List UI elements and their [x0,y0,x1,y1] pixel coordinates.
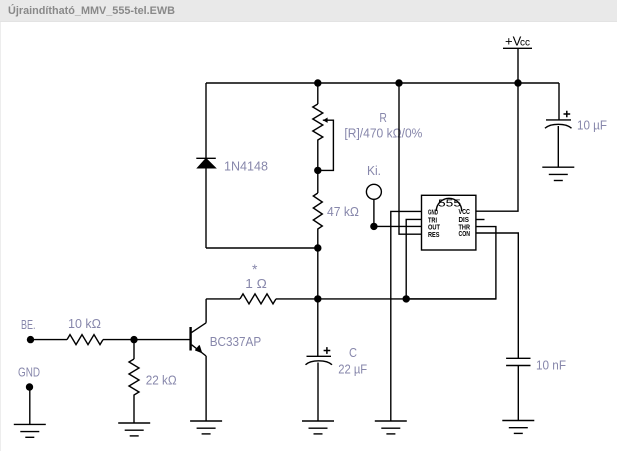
svg-text:cc: cc [520,38,530,49]
node dot OUT [370,223,377,230]
wire CON down to 10nF [476,233,518,358]
ground 10nF [502,421,534,434]
wire OUT pin [374,225,422,227]
label 1 Ohm [245,277,267,291]
wire DIS stub [476,219,485,221]
wire row down to 22uF [317,299,319,356]
svg-text:R: R [379,111,387,125]
ground 22uF [302,421,334,434]
wire TRI pin down to row [406,219,421,299]
resistor 1 ohm zigzag [240,294,276,304]
svg-text:22 kΩ: 22 kΩ [146,374,177,388]
node dot diode/47k junction [314,244,321,251]
ground emitter [190,421,222,434]
label 10 uF [577,119,607,133]
label 22 uF [338,363,367,377]
wire pot to 47k [317,170,319,193]
resistor 10k zigzag [67,335,103,345]
wire BE to 10k [31,339,68,341]
wire diode bottom horizontal [206,247,318,249]
wire 47k junction down to row [317,248,319,299]
wire 22k top [133,340,135,359]
wire collector row to 1 ohm [206,298,240,300]
svg-text:22 µF: 22 µF [338,363,367,377]
probe Ki. circle [366,184,381,199]
pin label GND [428,207,438,216]
resistor 22k zigzag [129,359,139,423]
svg-text:RES: RES [428,230,440,239]
resistor 47k zigzag [313,193,322,248]
wire 10k to base node [103,339,191,341]
label 22 kOhm [146,374,177,388]
label GND [18,366,40,380]
label [R]/470 kOhm/0% [344,126,422,140]
svg-text:BC337AP: BC337AP [210,335,262,349]
title bar [0,0,617,22]
node dot Vcc rail [514,79,521,86]
wire GND terminal down [29,387,31,424]
svg-text:Újraindítható_MMV_555-tel.EWB: Újraindítható_MMV_555-tel.EWB [8,4,175,17]
label 10 nF [536,359,566,373]
capacitor C 22uF electrolytic [306,347,333,421]
wire emitter down [205,356,207,421]
wire left drop to diode [205,83,207,158]
svg-text:BE.: BE. [21,318,36,332]
node dot pot bottom [314,167,321,174]
transistor Q1 BC337AP [191,323,207,356]
capacitor 10uF electrolytic [545,111,572,168]
potentiometer R zigzag [313,104,323,170]
wire GND pin down to ground [391,211,422,421]
node dot base/22k [130,336,137,343]
ground 22k [118,423,150,436]
svg-text:*: * [252,261,258,277]
label BE. [21,318,36,332]
ground 10uF [542,167,574,180]
pin label OUT [428,222,440,231]
node dot rail/pot [314,79,321,86]
node dot row/cap [314,295,321,302]
svg-text:47 kΩ: 47 kΩ [327,205,359,219]
ground 555 GND [375,421,407,434]
wire collector up [205,299,207,323]
label 47 kOhm [327,205,359,219]
wire RES vertical from rail [395,79,421,234]
capacitor 10nF [506,358,530,420]
svg-text:Ki.: Ki. [367,164,381,178]
wire VCC pin from rail [476,83,518,211]
svg-text:10 µF: 10 µF [577,119,607,133]
label 555 [438,198,462,209]
wire rail right branch [558,83,560,120]
svg-text:CON: CON [459,229,471,238]
label 1N4148 [224,160,268,174]
pin label DIS [459,215,470,224]
label Ki. [367,164,381,178]
svg-text:1N4148: 1N4148 [224,160,268,174]
wire row middle [276,298,496,300]
node dot TRI/row [403,295,410,302]
diode D1 1N4148 (cathode up) [196,158,216,248]
wire THR to row [406,227,496,299]
ground BE input [14,424,46,437]
wire top rail [206,82,559,84]
svg-text:1 Ω: 1 Ω [245,277,267,291]
label C [349,346,357,360]
power +Vcc symbol [503,34,532,84]
label asterisk [252,261,258,277]
wire probe to OUT node [373,199,375,226]
op-amp U1 555 box [422,195,476,250]
label 10 kOhm [68,317,101,331]
svg-text:C: C [349,346,357,360]
node dot GND terminal [26,383,33,390]
wire pot top [317,83,319,104]
pin label RES [428,230,440,239]
svg-text:[R]/470 kΩ/0%: [R]/470 kΩ/0% [344,126,422,140]
label BC337AP [210,335,262,349]
pin label CON [459,229,471,238]
node dot BE terminal [27,336,34,343]
svg-text:10 nF: 10 nF [536,359,566,373]
label R [379,111,387,125]
pin label VCC [459,207,471,216]
svg-text:10 kΩ: 10 kΩ [68,317,101,331]
potentiometer wiper arrow [318,118,334,171]
pin label THR [459,222,471,231]
svg-text:GND: GND [18,366,40,380]
pin label TRI [428,215,437,224]
